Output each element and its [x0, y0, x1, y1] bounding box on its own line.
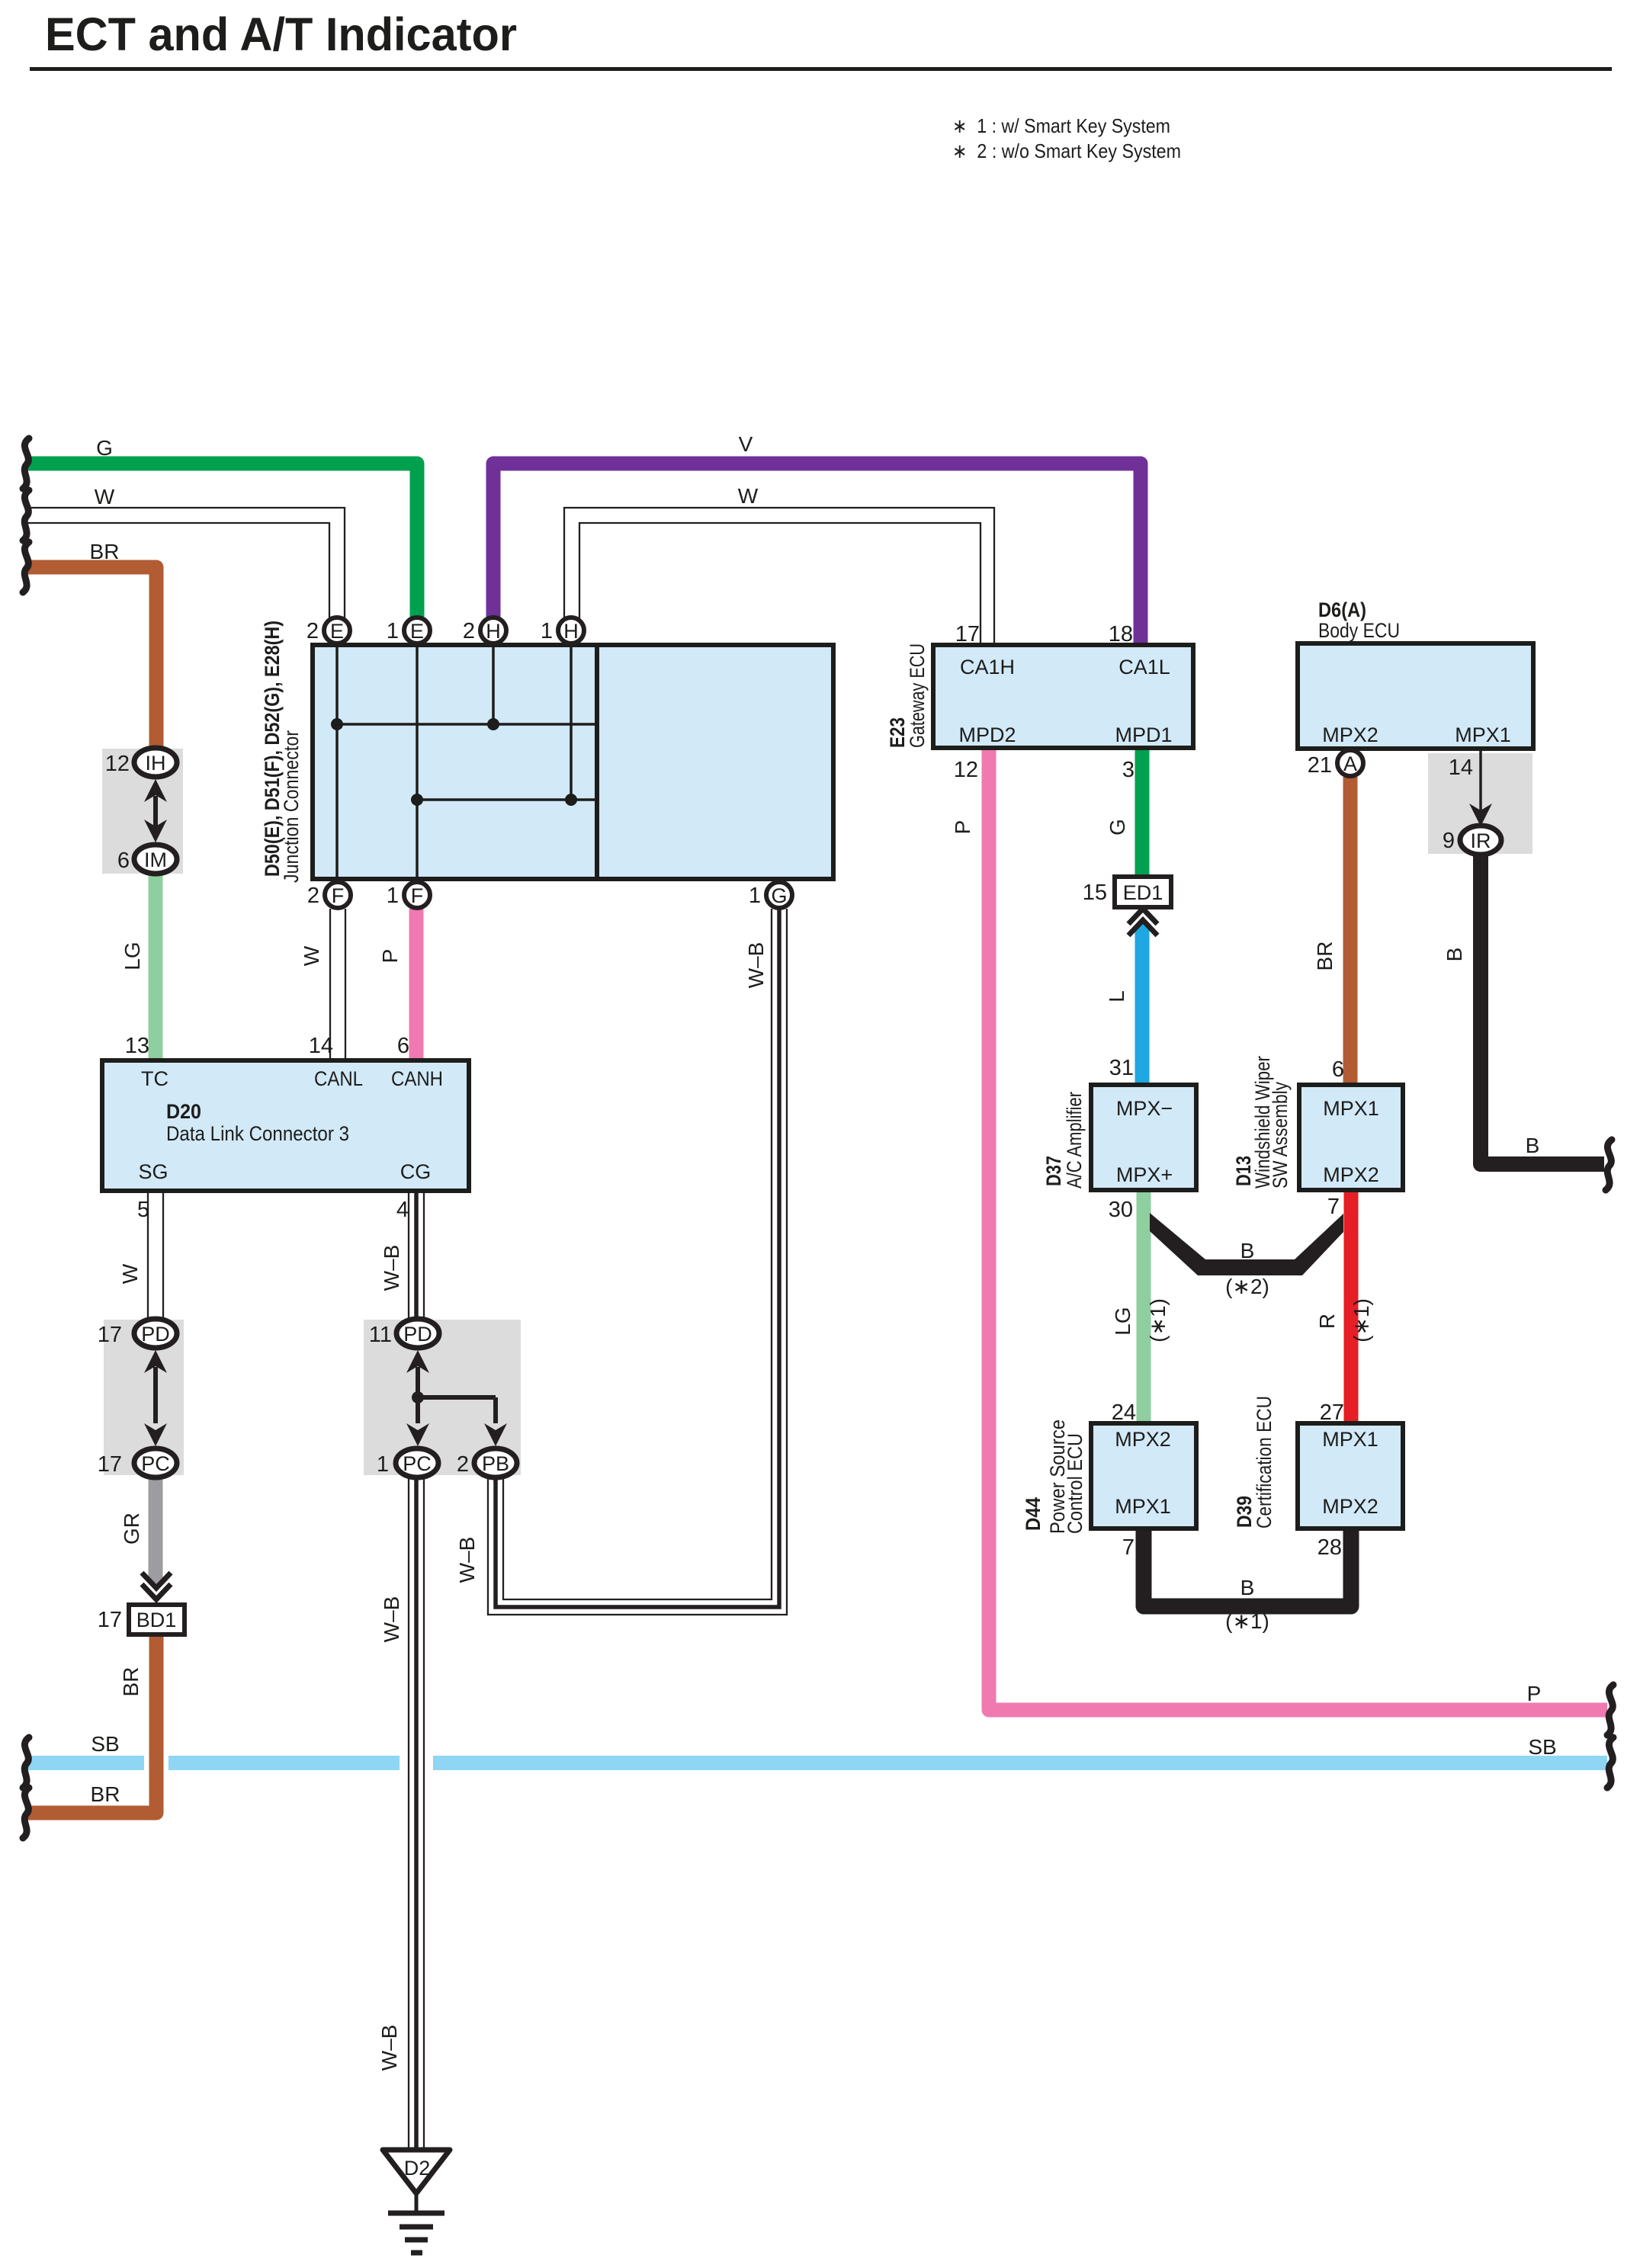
svg-text:∗ 1 : w/ Smart Key System: ∗ 1 : w/ Smart Key System: [952, 114, 1170, 137]
junction internal bus 1: [337, 723, 597, 726]
junction connector D50(E),D51(F),D52(G),E28(H) block: [313, 645, 833, 879]
wire BR top-left: [27, 567, 156, 752]
svg-text:E: E: [410, 620, 424, 643]
svg-text:MPX2: MPX2: [1322, 1495, 1378, 1518]
svg-text:GR: GR: [120, 1513, 143, 1545]
svg-text:A: A: [1343, 752, 1357, 775]
connector shading IH/IM: [102, 749, 183, 874]
power source control ECU D44 block: [1091, 1423, 1196, 1529]
svg-text:D20: D20: [166, 1100, 201, 1123]
svg-text:MPD2: MPD2: [958, 723, 1016, 746]
svg-text:1: 1: [749, 884, 761, 908]
svg-text:MPD1: MPD1: [1115, 723, 1172, 746]
svg-text:2: 2: [463, 619, 475, 643]
svg-text:SB: SB: [91, 1732, 119, 1756]
svg-text:1: 1: [387, 619, 399, 643]
connector shading PD/PC left: [104, 1320, 184, 1475]
pin circle E2: [324, 618, 350, 643]
svg-text:9: 9: [1443, 829, 1455, 853]
svg-text:PB: PB: [482, 1452, 509, 1475]
svg-text:Body ECU: Body ECU: [1318, 619, 1400, 642]
svg-text:31: 31: [1109, 1056, 1134, 1080]
svg-text:ECT and A/T Indicator: ECT and A/T Indicator: [45, 8, 517, 60]
svg-text:Certification ECU: Certification ECU: [1253, 1396, 1276, 1529]
squiggle BR left: [23, 542, 29, 592]
connector oval PC1: [396, 1448, 438, 1477]
svg-text:7: 7: [1122, 1535, 1135, 1560]
svg-text:14: 14: [1449, 755, 1473, 780]
svg-text:17: 17: [955, 622, 980, 646]
svg-text:G: G: [96, 436, 113, 460]
svg-text:R: R: [1315, 1314, 1339, 1329]
body ECU D6(A) block: [1298, 643, 1533, 749]
svg-text:4: 4: [396, 1198, 409, 1222]
svg-text:2: 2: [307, 884, 319, 908]
svg-text:BR: BR: [119, 1667, 143, 1697]
svg-text:W–B: W–B: [377, 2025, 401, 2071]
arrow pair PD17-PC17: [144, 1350, 167, 1373]
svg-text:21: 21: [1308, 753, 1332, 778]
svg-text:H: H: [486, 620, 501, 643]
junction internal bus 2: [417, 798, 597, 801]
junction internal wire E2-F2: [335, 645, 339, 879]
arrow dart down into IR: [1469, 804, 1492, 826]
svg-text:5: 5: [137, 1198, 149, 1222]
svg-text:CG: CG: [400, 1160, 432, 1183]
svg-text:MPX1: MPX1: [1323, 1097, 1379, 1120]
wire GR gray PC to BD1 chevron: [149, 1477, 163, 1583]
svg-text:28: 28: [1317, 1535, 1342, 1560]
wire LG IM to D20 TC pin 13: [149, 874, 163, 1060]
svg-text:PC: PC: [141, 1452, 170, 1475]
svg-text:W: W: [738, 484, 759, 508]
svg-text:CA1L: CA1L: [1118, 656, 1170, 678]
svg-text:30: 30: [1109, 1198, 1133, 1222]
connector shading IR: [1428, 753, 1532, 854]
wire W top-left (white, outlined): [27, 508, 345, 619]
svg-text:W–B: W–B: [744, 942, 768, 989]
svg-text:Control ECU: Control ECU: [1064, 1433, 1086, 1534]
svg-text:17: 17: [98, 1323, 122, 1347]
svg-text:V: V: [739, 432, 753, 456]
title underline: [30, 67, 1612, 71]
svg-text:6: 6: [117, 848, 130, 873]
wire LG D37 pin30 to D44 pin24: [1137, 1190, 1151, 1423]
wire W top-right H1 to CA1H: [564, 508, 994, 645]
svg-text:24: 24: [1112, 1400, 1136, 1425]
svg-text:PC: PC: [403, 1452, 432, 1475]
svg-text:(∗1): (∗1): [1350, 1298, 1373, 1343]
svg-text:BD1: BD1: [136, 1609, 177, 1631]
pin circle A body ECU: [1337, 750, 1363, 776]
svg-text:D2: D2: [404, 2157, 431, 2180]
connector shading PD/PC/PB right: [364, 1320, 521, 1475]
junction node dot F1/bus2: [411, 794, 423, 806]
pin circle F1: [404, 882, 430, 908]
svg-text:MPX1: MPX1: [1455, 723, 1511, 746]
pin circle H2: [480, 618, 506, 643]
wire BR body ECU A to D13 pin 6: [1343, 777, 1358, 1085]
svg-text:W: W: [95, 485, 115, 508]
svg-text:18: 18: [1109, 622, 1133, 646]
svg-text:27: 27: [1320, 1400, 1344, 1425]
svg-text:Gateway ECU: Gateway ECU: [906, 643, 929, 748]
squiggle SB right: [1607, 1737, 1613, 1788]
junction node dot H2/bus1: [487, 718, 499, 730]
svg-text:MPX+: MPX+: [1116, 1163, 1173, 1186]
svg-text:D6(A): D6(A): [1318, 598, 1366, 621]
svg-text:CANL: CANL: [314, 1067, 363, 1090]
arrow pair PD11 branch: [406, 1350, 429, 1373]
svg-text:6: 6: [1332, 1057, 1344, 1082]
svg-text:W: W: [118, 1263, 142, 1284]
wire G green top-left: [27, 464, 417, 619]
svg-text:LG: LG: [1111, 1307, 1135, 1335]
junction internal wire E1-F1: [416, 645, 419, 879]
certification ECU D39 block: [1298, 1423, 1403, 1529]
svg-text:1: 1: [387, 884, 399, 908]
svg-text:1: 1: [377, 1452, 389, 1477]
svg-text:BR: BR: [90, 540, 120, 563]
connector oval IM: [134, 845, 177, 874]
svg-text:L: L: [1105, 990, 1128, 1002]
ground D2: [383, 2150, 450, 2253]
svg-text:7: 7: [1327, 1195, 1340, 1219]
svg-text:12: 12: [954, 758, 978, 782]
svg-text:MPX2: MPX2: [1115, 1428, 1171, 1451]
wire B black from IR to right edge: [1481, 854, 1604, 1164]
svg-text:MPX1: MPX1: [1115, 1495, 1171, 1518]
svg-text:B: B: [1443, 948, 1466, 962]
svg-text:B: B: [1240, 1576, 1255, 1599]
A/C amplifier D37 block: [1091, 1085, 1196, 1190]
svg-text:B: B: [1526, 1134, 1540, 1157]
svg-text:2: 2: [457, 1452, 469, 1477]
svg-text:D37: D37: [1042, 1156, 1065, 1186]
wire R red D13 pin7 to D39 pin27: [1344, 1190, 1359, 1423]
svg-text:IH: IH: [146, 752, 166, 775]
junction internal divider: [595, 645, 599, 879]
wire L blue below ED1 chevron to D37 pin 31: [1135, 925, 1150, 1085]
svg-text:ED1: ED1: [1123, 881, 1163, 904]
wire P pink F1 to CANH pin 6: [409, 909, 424, 1060]
svg-text:F: F: [411, 884, 424, 907]
svg-text:SB: SB: [1528, 1735, 1556, 1759]
svg-text:A/C Amplifier: A/C Amplifier: [1063, 1092, 1086, 1189]
svg-text:17: 17: [98, 1608, 122, 1632]
svg-text:∗ 2 : w/o Smart Key System: ∗ 2 : w/o Smart Key System: [952, 140, 1181, 162]
wire W F2 to CANL pin 14: [330, 909, 345, 1060]
wire W SG to PD 17: [148, 1191, 163, 1321]
svg-text:W–B: W–B: [380, 1245, 403, 1291]
squiggle P right: [1607, 1685, 1613, 1735]
svg-text:IR: IR: [1471, 829, 1491, 852]
svg-text:P: P: [951, 820, 974, 835]
svg-text:SW Assembly: SW Assembly: [1269, 1082, 1292, 1189]
svg-text:13: 13: [125, 1034, 149, 1058]
svg-text:SG: SG: [138, 1160, 168, 1183]
pin circle E1: [404, 618, 430, 643]
junction internal wire H2 stub: [492, 645, 495, 724]
wire pin 14 thin lead to IR: [1479, 749, 1482, 820]
junction internal wire H1 stub: [570, 645, 573, 800]
svg-text:G: G: [1106, 819, 1129, 836]
svg-text:Data Link Connector 3: Data Link Connector 3: [166, 1122, 349, 1145]
svg-text:3: 3: [1122, 758, 1135, 782]
pin circle H1: [558, 618, 584, 643]
connector oval PC17: [134, 1448, 177, 1477]
chevrons below ED1: [1128, 909, 1157, 935]
svg-text:PD: PD: [141, 1323, 170, 1346]
svg-text:MPX2: MPX2: [1322, 723, 1378, 746]
squiggle SB left: [23, 1737, 29, 1788]
svg-text:17: 17: [98, 1452, 122, 1477]
svg-text:F: F: [332, 884, 345, 907]
squiggle B right: [1606, 1140, 1612, 1190]
gateway ECU E23 block: [933, 645, 1193, 748]
junction node dot E2/bus1: [331, 718, 343, 730]
svg-text:1: 1: [541, 619, 553, 643]
svg-text:D44: D44: [1022, 1497, 1045, 1531]
svg-text:11: 11: [369, 1323, 392, 1347]
svg-text:(∗1): (∗1): [1225, 1609, 1269, 1633]
svg-text:(∗2): (∗2): [1225, 1275, 1269, 1298]
connector oval IH: [134, 748, 177, 777]
connector oval IR: [1460, 826, 1501, 855]
junction node dot H1/bus2: [565, 794, 577, 806]
connector oval PD11: [396, 1319, 439, 1348]
connector oval PB2: [474, 1448, 517, 1477]
windshield wiper SW D13 block: [1299, 1085, 1403, 1190]
svg-text:P: P: [1527, 1682, 1542, 1705]
wire BR below BD1 to left edge: [27, 1634, 156, 1813]
squiggle BR bottom-left: [23, 1788, 29, 1838]
svg-text:BR: BR: [1313, 942, 1337, 971]
arrow pair IH-IM: [144, 779, 167, 802]
squiggle G left: [23, 438, 29, 489]
svg-text:Junction Connector: Junction Connector: [280, 730, 303, 883]
svg-text:14: 14: [309, 1034, 333, 1058]
svg-text:12: 12: [105, 752, 130, 776]
wire V purple: [493, 464, 1141, 645]
svg-text:W: W: [300, 945, 323, 966]
svg-text:B: B: [1240, 1239, 1255, 1262]
svg-text:(∗1): (∗1): [1146, 1298, 1170, 1343]
connector box BD1: [129, 1605, 185, 1634]
svg-text:6: 6: [397, 1034, 409, 1058]
squiggle W left: [23, 490, 29, 541]
svg-text:G: G: [771, 884, 787, 907]
svg-text:P: P: [378, 949, 402, 964]
pin circle G1: [766, 882, 792, 908]
connector oval PD17: [134, 1319, 177, 1348]
wire P pink MPD2 down and right: [989, 748, 1607, 1710]
svg-text:PD: PD: [403, 1323, 432, 1346]
data link connector 3 D20 block: [102, 1060, 469, 1191]
wire W-B PC1 to ground D2: [414, 1478, 419, 2150]
svg-text:CA1H: CA1H: [960, 656, 1015, 678]
svg-text:E: E: [330, 620, 344, 643]
wire B black U-loop pin7 D44 to pin28 D39: [1144, 1529, 1351, 1606]
svg-text:H: H: [563, 620, 579, 643]
svg-text:TC: TC: [141, 1067, 168, 1090]
wire G green MPD1 to ED1: [1135, 748, 1150, 878]
wire W-B CG to PD 11: [414, 1191, 419, 1321]
wire B black diagonal (*2) between pin30 and pin7: [1150, 1213, 1343, 1275]
svg-text:15: 15: [1083, 881, 1107, 905]
chevrons above BD1: [142, 1573, 171, 1599]
svg-text:MPX−: MPX−: [1116, 1097, 1173, 1120]
wire SB bus (sky blue): [27, 1756, 1607, 1770]
svg-text:W–B: W–B: [380, 1596, 403, 1643]
connector box ED1: [1115, 877, 1171, 907]
svg-text:W–B: W–B: [455, 1537, 479, 1583]
svg-text:CANH: CANH: [391, 1067, 443, 1090]
svg-text:MPX1: MPX1: [1322, 1428, 1378, 1451]
svg-text:IM: IM: [144, 848, 167, 871]
svg-text:MPX2: MPX2: [1323, 1163, 1379, 1186]
svg-text:BR: BR: [91, 1782, 120, 1806]
wire W-B G1 loop to PB: [496, 909, 779, 1607]
svg-text:2: 2: [306, 619, 319, 643]
svg-text:LG: LG: [120, 942, 144, 970]
pin circle F2: [325, 882, 351, 908]
